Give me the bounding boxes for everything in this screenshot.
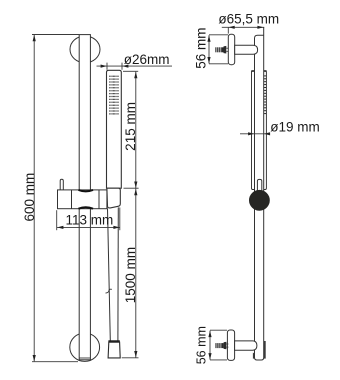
arrow 113 left [57,226,63,229]
bottom screw [215,342,228,350]
top flange (side) [228,34,234,64]
witness line bottom [32,361,78,363]
rail bottom dark edge left (side) [253,353,254,359]
dim 215/1500 shared vertical line [122,71,139,358]
svg-text:215 mm: 215 mm [123,102,138,151]
top arm (side) [235,45,258,54]
hose connector cone (front) [108,342,120,358]
top wall mount circle [70,36,100,63]
arrow 56top down [207,57,210,64]
svg-text:113 mm: 113 mm [66,212,114,227]
hose break squiggle [106,289,112,293]
arrow ø65,5 left [229,26,235,29]
arrow 56top up [207,35,210,42]
holder cradle (front) [107,188,120,208]
witness handle top [123,70,138,72]
hand shower handle (front) [107,70,122,188]
holder tab (front) [60,179,63,190]
bottom flange (side) [227,330,234,360]
arrow ø19 left [248,132,254,135]
svg-text:ø26mm: ø26mm [124,52,170,67]
arrow 56bot down [208,353,211,360]
rail bottom dark edge right (side) [264,341,266,359]
arrow 600 bottom [33,355,36,362]
slider knob (side) [250,190,270,210]
holder tab (side) [257,179,261,190]
arrow 1500 bottom [134,351,137,358]
spray face ladder (side) [264,76,266,114]
svg-text:ø19 mm: ø19 mm [270,119,320,134]
dim ø19 mm [240,133,270,135]
svg-text:1500 mm: 1500 mm [123,247,138,303]
dim 113mm [57,208,120,231]
handset slab (side) [252,71,267,190]
svg-text:600 mm: 600 mm [22,173,37,222]
arrow 215 bottom [134,182,137,189]
bottom arm (side) [235,341,257,350]
witness line top [32,34,79,36]
arrow ø65,5 right [257,26,263,29]
hose (front) [108,207,119,340]
witness handle bottom [124,187,139,189]
arrow 215 top [134,72,137,79]
dim ø65,5 mm [222,27,264,33]
witness cone bottom [122,357,139,359]
dim 56 mm top [209,35,228,64]
arrow 56bot up [208,331,211,338]
top screw [215,46,228,54]
dim 56 mm bottom [210,330,227,360]
arrow ø19 right [264,132,270,135]
slide bar (front) [79,35,90,360]
holder body (front) [58,190,107,209]
spray face dots [109,76,118,114]
arrow 1500 top [134,189,137,196]
arrow ø26 right [122,65,128,68]
svg-text:56 mm: 56 mm [195,326,209,364]
arrow 113 right [113,226,119,229]
dim ø26mm [97,63,173,70]
arrow 600 top [33,35,36,42]
arrow ø26 left [101,65,107,68]
collar arc bottom [79,207,94,208]
slide bar (side) [255,27,264,360]
collar arc top [79,190,94,191]
svg-text:56 mm: 56 mm [193,28,208,69]
dim 600mm vertical line [32,35,79,362]
svg-text:ø65,5 mm: ø65,5 mm [218,12,279,27]
hose connector nut line (front) [108,340,119,342]
bottom wall mount circle [70,333,100,361]
